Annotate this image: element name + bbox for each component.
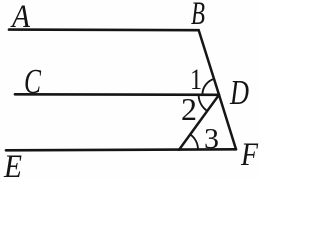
- svg-text:F: F: [240, 137, 259, 173]
- wire bottom parallel line E-F: [6, 149, 236, 150]
- svg-text:2: 2: [181, 91, 197, 127]
- wire top parallel line A-B: [9, 28, 199, 31]
- svg-text:3: 3: [204, 123, 219, 155]
- svg-text:B: B: [191, 0, 205, 32]
- svg-text:A: A: [10, 0, 31, 35]
- wire middle parallel line C-D: [15, 93, 219, 96]
- angle 1 arc at D: [202, 79, 214, 95]
- svg-text:E: E: [3, 149, 22, 179]
- angle 3 arc at G: [190, 134, 198, 149]
- svg-text:D: D: [229, 73, 249, 112]
- wire transversal B-D-F: [199, 30, 236, 149]
- angle 2 arc at D: [199, 95, 208, 111]
- svg-text:C: C: [24, 62, 41, 101]
- wire segment D-G: [179, 95, 219, 150]
